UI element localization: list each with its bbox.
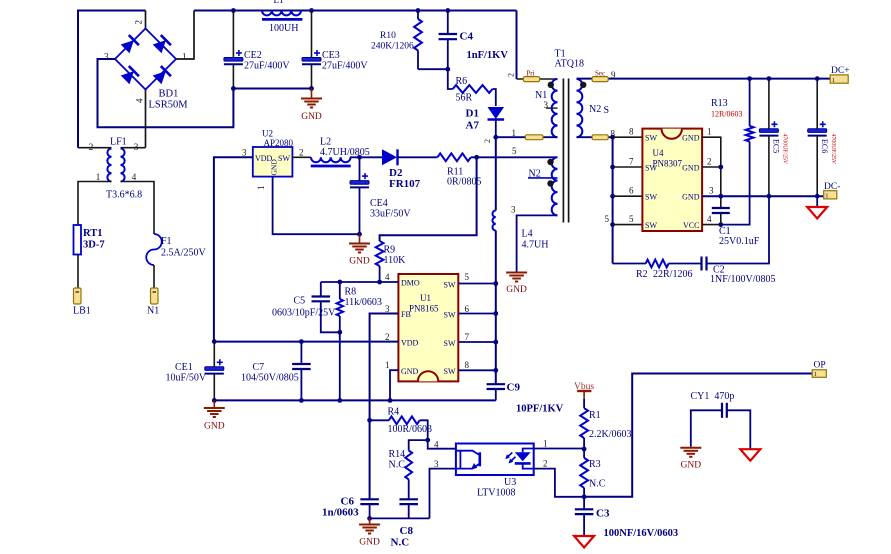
ground stem under CE4 bbox=[359, 234, 361, 242]
svg-text:4: 4 bbox=[132, 172, 137, 182]
EC6 bottom lead bbox=[816, 136, 818, 196]
C3 bottom lead bbox=[583, 514, 585, 536]
node SW bus pin8 bbox=[493, 368, 498, 373]
svg-text:7: 7 bbox=[629, 157, 634, 167]
EC5 bottom lead bbox=[768, 136, 770, 196]
svg-text:GND: GND bbox=[682, 164, 700, 173]
U4 pin8 stub bbox=[613, 136, 643, 138]
svg-text:U2: U2 bbox=[262, 129, 273, 139]
svg-text:27uF/400V: 27uF/400V bbox=[322, 61, 368, 72]
U4 pin1 stub bbox=[702, 137, 721, 208]
svg-text:1: 1 bbox=[385, 360, 390, 370]
sec pin8 connector box bbox=[592, 135, 608, 140]
wire D2 to R11 bbox=[398, 156, 438, 158]
node DMO R8 bbox=[337, 280, 342, 285]
resistor R14 bbox=[405, 451, 412, 480]
resistor R9 bbox=[376, 241, 384, 266]
ground under CE1 bbox=[204, 407, 225, 409]
wire branch to R14 bbox=[409, 440, 428, 450]
svg-text:4.7UH/0805: 4.7UH/0805 bbox=[320, 147, 370, 158]
T1 secondary winding bbox=[577, 79, 583, 137]
svg-text:SW: SW bbox=[645, 221, 657, 230]
svg-text:R13: R13 bbox=[711, 98, 728, 109]
U1 FB wire bbox=[370, 314, 399, 500]
wire C4 bottom to R6 bbox=[448, 69, 453, 89]
svg-text:EC5: EC5 bbox=[772, 139, 781, 153]
node R13 top bbox=[747, 76, 752, 81]
svg-text:5: 5 bbox=[465, 272, 470, 282]
svg-text:L2: L2 bbox=[320, 137, 331, 148]
svg-text:R3: R3 bbox=[589, 459, 601, 470]
svg-text:R10: R10 bbox=[380, 31, 396, 41]
svg-text:SW: SW bbox=[645, 134, 657, 143]
svg-text:22R/1206: 22R/1206 bbox=[653, 269, 692, 280]
capacitor CE3 bbox=[302, 58, 321, 62]
svg-text:N.C: N.C bbox=[589, 479, 606, 490]
node pin4 junction bbox=[718, 222, 723, 227]
inductor 100UH coil bbox=[262, 11, 301, 16]
node top rail R10 bbox=[416, 8, 421, 13]
svg-text:ATQ18: ATQ18 bbox=[555, 59, 584, 70]
svg-text:1: 1 bbox=[96, 172, 101, 182]
R10 top lead bbox=[417, 11, 419, 20]
svg-text:SW: SW bbox=[444, 281, 456, 290]
node bus pin7 bbox=[610, 165, 615, 170]
node CE1 bottom bbox=[212, 398, 217, 403]
svg-text:C5: C5 bbox=[294, 296, 306, 307]
node CE4 bottom bbox=[357, 232, 362, 237]
U3 pin1 wire bbox=[534, 448, 584, 450]
svg-text:DC+: DC+ bbox=[831, 66, 850, 76]
C4 bottom lead bbox=[447, 39, 449, 69]
U1 SW pin7 stub bbox=[458, 341, 496, 343]
svg-text:4: 4 bbox=[434, 440, 439, 450]
wire N1 bottom to D1 junction bbox=[496, 136, 558, 138]
wire F1 to N1 terminal bbox=[153, 265, 155, 288]
node CE2 bottom bbox=[231, 86, 236, 91]
U1 SW pin6 stub bbox=[458, 313, 496, 315]
svg-text:2: 2 bbox=[385, 332, 390, 342]
svg-text:2: 2 bbox=[89, 142, 94, 152]
svg-text:8: 8 bbox=[629, 127, 634, 137]
CE1 bottom lead bbox=[213, 374, 215, 400]
svg-text:LB1: LB1 bbox=[73, 306, 91, 317]
svg-text:10PF/1KV: 10PF/1KV bbox=[516, 404, 564, 415]
node D1-N1-L4 junction bbox=[493, 135, 498, 140]
node pin3 junction bbox=[718, 194, 723, 199]
CE4 top lead bbox=[359, 157, 361, 180]
svg-text:LF1: LF1 bbox=[110, 137, 127, 148]
CE2 bottom lead bbox=[232, 65, 234, 89]
svg-text:R2: R2 bbox=[636, 269, 648, 280]
svg-text:5: 5 bbox=[512, 146, 517, 156]
svg-text:11k/0603: 11k/0603 bbox=[345, 297, 382, 308]
svg-text:CE4: CE4 bbox=[370, 198, 388, 209]
capacitor C6 bbox=[360, 498, 379, 500]
wire C6 to C8 bottom rail bbox=[370, 517, 430, 519]
inductor LF1 right winding bbox=[121, 149, 125, 182]
wire top rail from bridge pin1 to transformer bbox=[194, 10, 517, 12]
svg-text:4700UF/25V: 4700UF/25V bbox=[782, 134, 788, 165]
CE2 top lead bbox=[232, 11, 234, 58]
CE3 bottom lead bbox=[311, 65, 313, 89]
transformer core line 2 bbox=[568, 79, 570, 223]
secondary phase dot bbox=[580, 82, 586, 88]
ground under CE4 bbox=[349, 243, 370, 245]
resistor R13 bbox=[746, 126, 754, 142]
svg-text:3: 3 bbox=[242, 148, 247, 158]
thermistor RT1 body bbox=[74, 225, 82, 255]
svg-text:GND: GND bbox=[682, 134, 700, 143]
capacitor C9 bbox=[487, 383, 506, 385]
svg-text:VDD: VDD bbox=[401, 339, 419, 348]
svg-text:GND: GND bbox=[401, 367, 419, 376]
svg-text:3: 3 bbox=[544, 100, 549, 110]
N2 lower phase dot 1 bbox=[547, 159, 553, 165]
wire L input from LF1 pin2 up to top-left corner bbox=[78, 11, 146, 148]
U2 pin2 stub bbox=[292, 156, 311, 158]
U3 LED bbox=[515, 452, 531, 461]
svg-text:4.7UH: 4.7UH bbox=[522, 240, 549, 251]
C5 top lead bbox=[320, 282, 322, 297]
svg-text:2: 2 bbox=[299, 148, 304, 158]
Pri connector box bbox=[523, 77, 539, 82]
svg-text:Sec: Sec bbox=[595, 70, 605, 78]
R8 bottom lead bbox=[339, 316, 341, 332]
U1 VDD rail bbox=[214, 341, 399, 343]
U4 pin6 stub bbox=[613, 195, 643, 197]
svg-text:56R: 56R bbox=[456, 93, 473, 104]
wire R10 to C4 bottom bbox=[418, 68, 448, 70]
node top rail CE3 bbox=[309, 8, 314, 13]
R8 top lead bbox=[339, 282, 341, 299]
svg-text:PN8165: PN8165 bbox=[409, 304, 439, 314]
svg-text:100UH: 100UH bbox=[269, 23, 298, 34]
svg-text:CY1 470p: CY1 470p bbox=[691, 391, 735, 402]
svg-text:RT1: RT1 bbox=[83, 228, 102, 239]
R13 bottom lead bbox=[721, 142, 750, 225]
power ground triangle DC- bbox=[807, 207, 827, 219]
svg-text:2: 2 bbox=[134, 20, 144, 25]
bridge diode top-right bbox=[153, 40, 166, 53]
LF1 pin3 stub bbox=[121, 147, 146, 149]
terminal LB1 box bbox=[74, 288, 82, 304]
diode D2 bbox=[382, 149, 397, 165]
wire CE2-CE3 bottom rail bbox=[233, 88, 311, 90]
inductor L4 bbox=[492, 211, 495, 231]
wire R6 to D1 bbox=[493, 89, 496, 106]
op-amp U1 PN8165 body bbox=[398, 274, 458, 381]
svg-text:100R/0603: 100R/0603 bbox=[388, 424, 432, 435]
wire D1 junction down to L4 bbox=[495, 137, 497, 210]
U1 SW pin8 stub bbox=[458, 369, 496, 371]
ground under CY1 bbox=[680, 447, 701, 449]
node GND pin rail bbox=[388, 398, 393, 403]
wire OP net bbox=[584, 374, 812, 497]
fuse F1 body bbox=[146, 234, 162, 265]
node top rail C4 bbox=[445, 8, 450, 13]
svg-text:5: 5 bbox=[605, 214, 610, 224]
R1 top lead bbox=[583, 399, 585, 408]
wire bridge pin4 down to LF1 pin3 bbox=[145, 90, 147, 148]
N1 pin1 connector box bbox=[525, 135, 543, 140]
op-amp U4 PN8307 body bbox=[642, 129, 702, 231]
svg-text:1: 1 bbox=[814, 371, 817, 378]
C3 top lead bbox=[583, 497, 585, 510]
C8 bottom lead bbox=[408, 504, 410, 518]
svg-text:L1: L1 bbox=[274, 0, 284, 5]
C7 bottom lead bbox=[300, 369, 302, 400]
svg-text:LTV1008: LTV1008 bbox=[477, 488, 516, 499]
svg-text:1: 1 bbox=[707, 127, 712, 137]
N2 tap stub bbox=[528, 177, 558, 179]
U3 transistor bbox=[456, 451, 479, 455]
svg-text:DC-: DC- bbox=[824, 182, 840, 192]
U4 pin7 stub bbox=[613, 166, 643, 168]
svg-text:SW: SW bbox=[645, 164, 657, 173]
U1 GND pin wire bbox=[390, 370, 398, 400]
C5 bottom lead bbox=[321, 301, 340, 332]
node FB R4 bbox=[367, 418, 372, 423]
svg-text:3: 3 bbox=[709, 186, 714, 196]
U3 LED arrows bbox=[507, 453, 513, 458]
bottom GND rail bbox=[214, 399, 496, 401]
capacitor CE1 bbox=[205, 367, 224, 371]
svg-text:C8: C8 bbox=[400, 525, 414, 537]
LF1 pin2 stub bbox=[78, 147, 112, 149]
svg-text:N.C: N.C bbox=[391, 537, 410, 549]
svg-text:240K/1206: 240K/1206 bbox=[371, 42, 414, 52]
power ground triangle CY1 bbox=[740, 449, 760, 461]
svg-text:1: 1 bbox=[182, 52, 187, 62]
capacitor CE2 bbox=[224, 58, 243, 62]
U4 pin3 wire to DC- bbox=[702, 195, 824, 197]
svg-text:5: 5 bbox=[629, 214, 634, 224]
svg-text:N2: N2 bbox=[589, 104, 601, 115]
svg-text:1NF/100V/0805: 1NF/100V/0805 bbox=[710, 274, 776, 285]
svg-text:8: 8 bbox=[465, 360, 470, 370]
capacitor C8 bbox=[399, 498, 418, 500]
resistor R4 bbox=[389, 416, 420, 424]
resistor R1 bbox=[580, 408, 588, 438]
svg-text:3: 3 bbox=[434, 459, 439, 469]
LF1 pin1 stub bbox=[78, 182, 112, 226]
svg-text:R4: R4 bbox=[388, 407, 400, 418]
svg-text:FR107: FR107 bbox=[389, 178, 421, 190]
wire R11 to transformer pin5 bbox=[471, 156, 558, 158]
svg-text:1: 1 bbox=[512, 128, 517, 138]
svg-text:4700UF/25V: 4700UF/25V bbox=[830, 134, 836, 165]
CE3 top lead bbox=[311, 11, 313, 58]
node CE3 bottom bbox=[309, 86, 314, 91]
ground stem under C6 bbox=[369, 518, 371, 523]
R13 top lead bbox=[749, 79, 751, 126]
svg-text:R9: R9 bbox=[384, 245, 396, 256]
svg-text:104/50V/0805: 104/50V/0805 bbox=[241, 373, 299, 384]
node R4 R14 branch bbox=[425, 438, 430, 443]
svg-text:GND: GND bbox=[204, 422, 225, 432]
svg-text:PN8307: PN8307 bbox=[653, 159, 683, 169]
CE4 bottom lead bbox=[359, 188, 361, 234]
node R11 output bbox=[474, 155, 479, 160]
node EC6 top bbox=[815, 76, 820, 81]
svg-text:4: 4 bbox=[707, 214, 712, 224]
svg-text:R1: R1 bbox=[589, 410, 601, 421]
CY1 right wire bbox=[727, 410, 751, 449]
ground under CE3 bbox=[301, 98, 322, 100]
capacitor CE4 bbox=[350, 181, 369, 185]
C1 bottom lead bbox=[720, 213, 722, 225]
svg-text:3: 3 bbox=[134, 142, 139, 152]
svg-text:GND: GND bbox=[682, 193, 700, 202]
svg-text:CE2: CE2 bbox=[244, 50, 262, 61]
svg-text:CE3: CE3 bbox=[322, 50, 340, 61]
svg-text:SW: SW bbox=[278, 154, 290, 163]
wire node to R9 top bbox=[380, 157, 477, 241]
svg-text:C3: C3 bbox=[596, 508, 610, 520]
R1 bottom lead bbox=[583, 438, 585, 449]
DC- ground stem bbox=[816, 196, 818, 207]
svg-text:27uF/400V: 27uF/400V bbox=[244, 61, 290, 72]
R10 bottom lead bbox=[417, 51, 419, 70]
wire Pri to N1 winding bbox=[517, 78, 558, 80]
svg-text:DMO: DMO bbox=[401, 279, 420, 288]
svg-text:12R/0603: 12R/0603 bbox=[711, 110, 743, 119]
svg-text:R14: R14 bbox=[389, 449, 406, 460]
svg-text:CE1: CE1 bbox=[175, 362, 193, 373]
node EC5 top bbox=[767, 76, 772, 81]
resistor R8 bbox=[337, 299, 343, 316]
ground under C6 bbox=[359, 524, 380, 526]
svg-text:Pri: Pri bbox=[526, 70, 534, 78]
svg-text:2.2K/0603: 2.2K/0603 bbox=[589, 429, 632, 440]
CE1 top lead bbox=[213, 342, 215, 367]
svg-text:GND: GND bbox=[270, 159, 279, 176]
wire bridge pin1 to top rail bbox=[176, 11, 194, 60]
svg-text:L4: L4 bbox=[522, 229, 533, 240]
node VDD rail C7 bbox=[299, 339, 304, 344]
svg-text:GND: GND bbox=[349, 257, 370, 267]
svg-text:2: 2 bbox=[507, 73, 516, 77]
svg-text:0603/10pF/25V: 0603/10pF/25V bbox=[272, 308, 336, 319]
wire R2 to C2 bbox=[669, 263, 702, 265]
T1 lower primary winding N2 bbox=[552, 157, 558, 215]
svg-text:SW: SW bbox=[444, 311, 456, 320]
U3 pin3 wire bbox=[430, 469, 456, 519]
node bus pin5 bbox=[610, 222, 615, 227]
bridge diode bottom-left bbox=[121, 71, 134, 84]
C9 bottom lead bbox=[495, 389, 497, 400]
node SW bus pin6 bbox=[493, 311, 498, 316]
bridge diode top-left bbox=[121, 40, 134, 53]
svg-text:GND: GND bbox=[359, 538, 380, 548]
ground stem under CE1 bbox=[213, 400, 215, 407]
node bus pin6 bbox=[610, 194, 615, 199]
svg-text:R6: R6 bbox=[456, 76, 468, 87]
svg-text:2: 2 bbox=[707, 157, 712, 167]
node DMO R9 bbox=[377, 280, 382, 285]
inductor LF1 left winding bbox=[107, 149, 111, 182]
svg-text:AP2080: AP2080 bbox=[264, 138, 294, 148]
capacitor EC6 bbox=[808, 129, 827, 133]
resistor R6 bbox=[453, 85, 493, 93]
svg-text:110K: 110K bbox=[384, 255, 407, 266]
capacitor CY1 bbox=[721, 403, 723, 418]
EC5 top lead bbox=[768, 79, 770, 129]
wire C2 to EC5 bottom bbox=[707, 196, 770, 263]
node top rail CE2 bbox=[231, 8, 236, 13]
node R1 R3 opto bbox=[582, 447, 587, 452]
resistor R10 bbox=[414, 19, 422, 51]
node VDD rail CE1 bbox=[212, 339, 217, 344]
svg-text:2: 2 bbox=[543, 459, 548, 469]
svg-text:C4: C4 bbox=[460, 31, 474, 43]
C7 top lead bbox=[300, 342, 302, 364]
port OP bbox=[812, 370, 826, 378]
wire bridge pin3 to CE2 bottom bbox=[98, 59, 234, 127]
T1 primary winding N1 bbox=[552, 79, 558, 137]
R9 bottom lead bbox=[379, 266, 381, 282]
svg-text:R8: R8 bbox=[345, 287, 357, 298]
svg-text:4: 4 bbox=[385, 272, 390, 282]
svg-text:1nF/1KV: 1nF/1KV bbox=[467, 50, 509, 61]
node C6 bottom bbox=[367, 516, 372, 521]
bridge diode bottom-right bbox=[153, 71, 166, 84]
svg-text:1: 1 bbox=[543, 439, 548, 449]
wire R8 bottom to rail bbox=[339, 332, 341, 400]
svg-text:1: 1 bbox=[256, 186, 266, 191]
svg-text:LSR50M: LSR50M bbox=[149, 100, 189, 111]
svg-text:D1: D1 bbox=[466, 108, 479, 120]
U4 pin4 stub bbox=[702, 224, 721, 226]
svg-text:3D-7: 3D-7 bbox=[83, 240, 105, 251]
inductor L2 bar bbox=[311, 165, 351, 168]
U2 pin3 wire to VDD rail bbox=[214, 157, 253, 341]
R4 left lead bbox=[370, 419, 389, 421]
node SW bus pin5 bbox=[493, 281, 498, 286]
bridge rectifier BD1 diamond bbox=[115, 29, 176, 90]
svg-text:OP: OP bbox=[814, 361, 826, 371]
terminal N1 box bbox=[151, 288, 159, 304]
U4 pin5 stub bbox=[613, 224, 643, 226]
optocoupler U3 body bbox=[456, 444, 534, 476]
U4 pin2 stub bbox=[702, 166, 721, 168]
capacitor C2 bbox=[700, 257, 702, 271]
svg-text:U4: U4 bbox=[653, 148, 664, 158]
R14 bottom lead bbox=[408, 479, 410, 499]
inductor 100UH bar bbox=[262, 18, 302, 21]
svg-text:100NF/16V/0603: 100NF/16V/0603 bbox=[604, 528, 679, 539]
svg-text:SW: SW bbox=[444, 367, 456, 376]
svg-text:T3.6*6.8: T3.6*6.8 bbox=[106, 190, 142, 201]
wire N2 bottom pin3 to GND bbox=[517, 215, 558, 271]
EC6 top lead bbox=[816, 79, 818, 129]
CY1 left wire bbox=[691, 410, 722, 447]
svg-text:1: 1 bbox=[825, 193, 828, 200]
svg-text:33uF/50V: 33uF/50V bbox=[370, 209, 411, 220]
svg-text:U1: U1 bbox=[420, 293, 431, 303]
svg-text:1: 1 bbox=[832, 77, 835, 84]
svg-text:2: 2 bbox=[483, 139, 492, 143]
resistor R3 bbox=[580, 458, 588, 488]
U3 pin2 wire bbox=[534, 469, 584, 497]
wire RT1 to LB1 bbox=[77, 255, 79, 289]
op-amp U2 AP2080 body bbox=[253, 147, 293, 177]
diode D1 bbox=[488, 107, 505, 119]
svg-text:2.5A/250V: 2.5A/250V bbox=[161, 248, 207, 259]
R3 bottom lead bbox=[583, 488, 585, 497]
svg-text:FB: FB bbox=[401, 310, 411, 319]
